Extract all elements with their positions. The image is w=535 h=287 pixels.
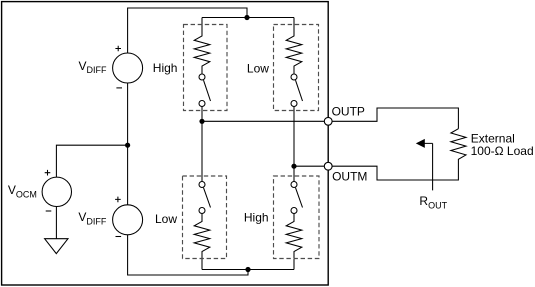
svg-text:OUTP: OUTP	[332, 105, 365, 119]
resistor (bottom-right High branch)	[286, 214, 302, 270]
svg-text:VOCM: VOCM	[8, 183, 37, 199]
resistor (bottom-left Low branch)	[194, 214, 210, 270]
dashed enclosure (bottom-left Low branch)	[183, 176, 227, 259]
polarity + (VDIFF top)	[115, 46, 121, 52]
switch (top-left High branch)	[199, 74, 211, 121]
wire: VOCM- to ground	[55, 207, 57, 239]
wire: bottom rail	[202, 269, 294, 271]
source VDIFF (top)	[113, 53, 143, 83]
wire: OUTP junction down to bottom-left switch	[201, 121, 203, 181]
switch (bottom-left Low branch)	[199, 182, 211, 214]
wire: OUTM junction down to bottom-right switch	[293, 166, 295, 181]
polarity + (VOCM)	[45, 170, 51, 176]
source VDIFF (bottom)	[113, 205, 143, 235]
wire: bottom VDIFF- down and across to bottom rail	[128, 235, 248, 275]
polarity + (VDIFF bottom)	[115, 197, 121, 203]
switch (top-right Low branch)	[291, 74, 303, 166]
svg-text:Low: Low	[247, 61, 269, 75]
polarity - (VDIFF bottom)	[116, 236, 122, 238]
junction: top rail feed	[244, 15, 249, 20]
polarity - (VDIFF top)	[116, 87, 122, 89]
outer device box	[2, 2, 329, 285]
svg-text:100-Ω Load: 100-Ω Load	[471, 144, 534, 158]
junction: OUTM rail at right branches	[291, 164, 296, 169]
wire: OUTP net rail	[202, 120, 328, 122]
terminal OUTP	[324, 117, 332, 125]
dashed enclosure (bottom-right High branch)	[274, 176, 320, 259]
ROUT arrow	[416, 139, 433, 191]
wire: top VDIFF+ up and across to top rail	[128, 8, 247, 53]
wire: OUTM net rail	[294, 165, 328, 167]
svg-text:High: High	[153, 61, 178, 75]
junction: VOCM tap	[125, 143, 130, 148]
dashed enclosure (top-left High branch)	[184, 25, 228, 111]
resistor external load	[332, 129, 466, 180]
svg-text:ROUT: ROUT	[419, 194, 447, 210]
polarity - (VOCM)	[46, 210, 52, 212]
svg-text:High: High	[244, 211, 269, 225]
switch (bottom-right High branch)	[291, 182, 303, 214]
svg-text:Low: Low	[155, 212, 177, 226]
source VOCM	[42, 177, 71, 206]
ground	[45, 239, 68, 254]
svg-text:VDIFF: VDIFF	[79, 59, 108, 75]
terminal OUTM	[324, 162, 332, 170]
dashed enclosure (top-right Low branch)	[274, 25, 319, 111]
resistor (top-left High branch)	[194, 18, 210, 75]
resistor (top-right Low branch)	[286, 18, 302, 75]
junction: bottom rail feed	[245, 267, 250, 272]
svg-text:OUTM: OUTM	[332, 170, 367, 184]
svg-text:VDIFF: VDIFF	[78, 210, 107, 226]
wire: top rail	[202, 17, 294, 19]
wire: VOCM+ to VDIFF chain	[56, 145, 127, 177]
wire: OUTP to external load to OUTM	[332, 108, 458, 129]
wire: between the two VDIFF sources	[127, 83, 129, 205]
junction: OUTP rail at top-left branch	[199, 119, 204, 124]
